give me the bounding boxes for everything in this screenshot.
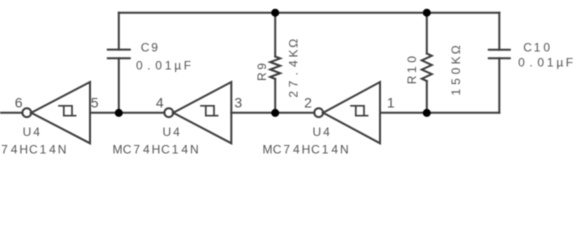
wire C9 branch upper [118,13,120,50]
svg-text:U4: U4 [162,125,180,139]
svg-text:4: 4 [156,95,164,111]
inverter U4A triangle [31,82,90,143]
inverter U4C bubble [314,108,323,117]
wire U4C output to C10 [380,112,499,114]
svg-text:U4: U4 [23,125,41,139]
inverter U4C triangle [323,82,380,143]
svg-text:1: 1 [387,95,395,111]
wire U4A output to U4B [90,112,164,114]
svg-text:R9: R9 [255,63,269,81]
resistor R10 [422,13,432,113]
svg-text:0.01µF: 0.01µF [518,55,573,69]
svg-text:MC74HC14N: MC74HC14N [263,143,349,157]
wire top rail [119,12,500,14]
svg-text:5: 5 [91,95,99,111]
svg-text:0.01µF: 0.01µF [136,58,191,72]
svg-text:74HC14N: 74HC14N [1,143,66,157]
svg-text:3: 3 [234,95,242,111]
wire C10 branch upper [498,13,500,50]
hysteresis glyph U4A [59,106,76,116]
junction node R9 top [271,9,279,17]
svg-text:U4: U4 [312,125,330,139]
svg-text:6: 6 [15,95,23,111]
svg-text:R10: R10 [405,56,419,85]
junction node R10 top [423,9,431,17]
svg-text:27.4KΩ: 27.4KΩ [287,39,301,98]
svg-text:MC74HC14N: MC74HC14N [113,143,199,157]
junction node R9 bottom [271,109,279,117]
wire C9 branch lower [118,58,120,112]
capacitor C9 [108,50,130,59]
capacitor C10 [489,50,510,59]
wire main input [0,112,22,114]
inverter U4B bubble [164,108,173,117]
svg-text:150KΩ: 150KΩ [449,45,463,95]
wire U4B output to U4C [231,112,314,114]
hysteresis glyph U4B [201,106,218,116]
wire C10 branch lower [498,58,500,112]
junction node C9/pin5 [115,109,123,117]
svg-text:2: 2 [304,95,312,111]
svg-text:C9: C9 [141,40,159,54]
junction node R10 bottom [423,109,431,117]
svg-text:C10: C10 [523,41,550,55]
inverter U4A bubble [22,108,31,117]
resistor R9 [270,13,280,113]
hysteresis glyph U4C [351,106,368,116]
inverter U4B triangle [173,82,231,143]
